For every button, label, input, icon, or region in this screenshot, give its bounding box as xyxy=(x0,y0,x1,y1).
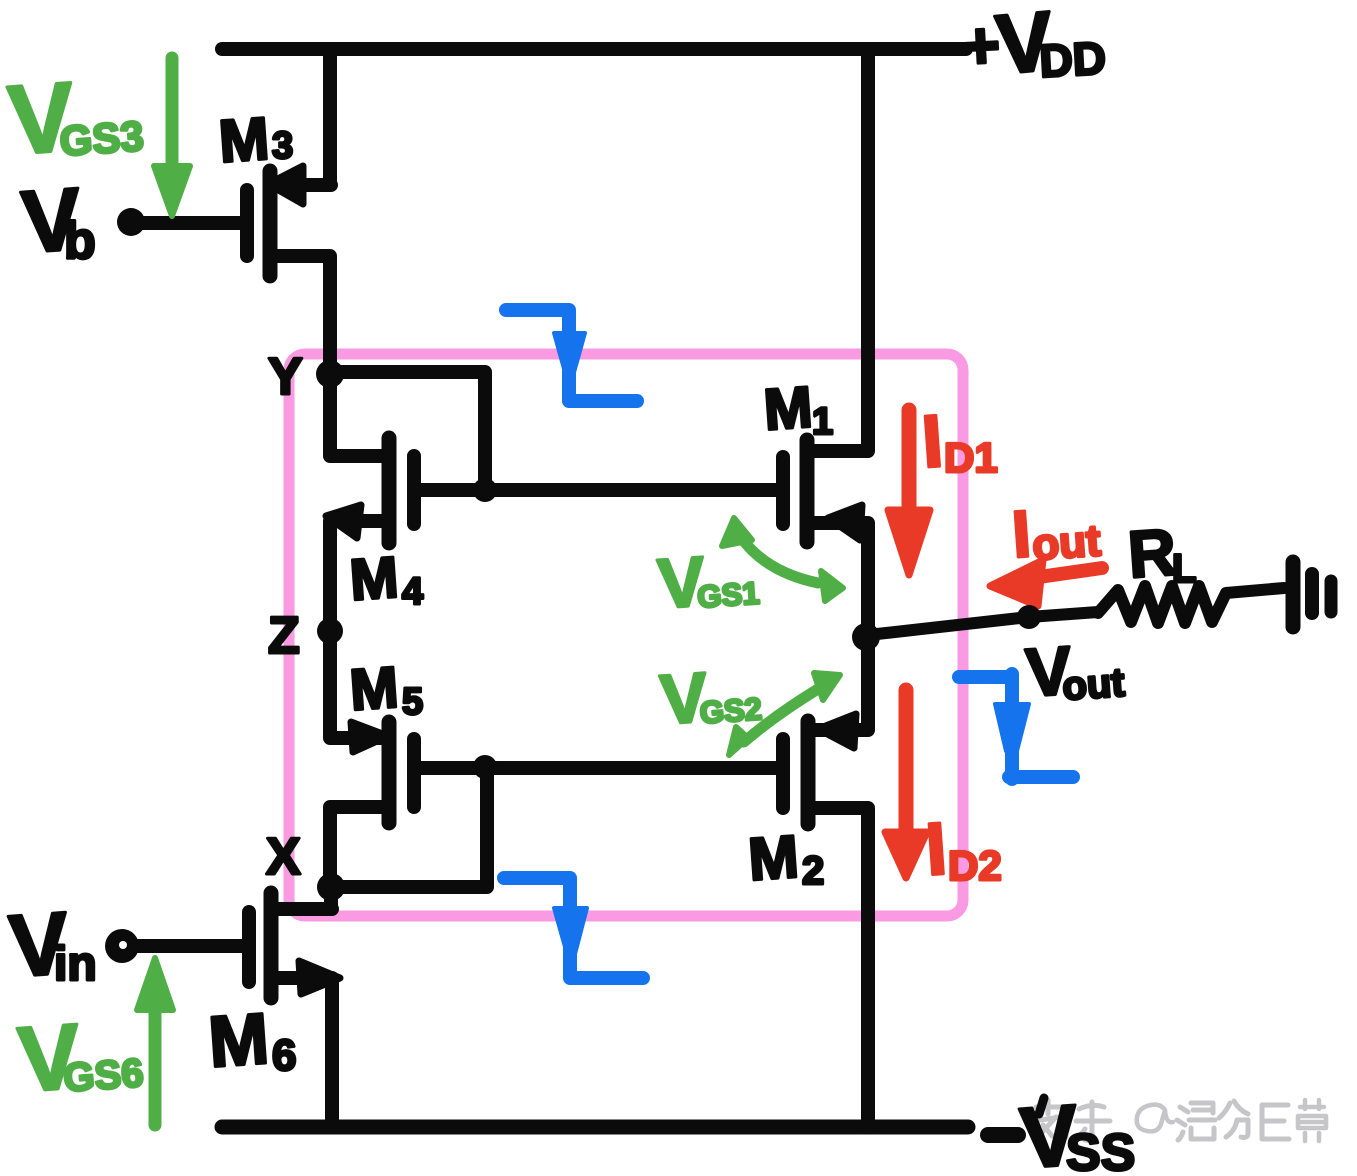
svg-text:in: in xyxy=(54,938,97,991)
resistor RL xyxy=(1098,586,1284,623)
label Vout xyxy=(1024,632,1126,711)
node Y xyxy=(316,360,344,388)
label +VDD xyxy=(960,0,1108,92)
feedback box (pink rectangle) xyxy=(289,354,963,916)
svg-text:GS6: GS6 xyxy=(62,1051,145,1100)
svg-text:M: M xyxy=(348,655,401,723)
wire Z to M5 source xyxy=(330,631,384,738)
node output xyxy=(852,623,880,651)
svg-text:b: b xyxy=(64,212,96,270)
svg-text:I: I xyxy=(919,399,945,483)
label M5 xyxy=(348,655,423,723)
svg-text:GS3: GS3 xyxy=(58,112,145,165)
label X xyxy=(266,828,301,886)
svg-text:GS2: GS2 xyxy=(699,691,763,730)
label VGS3 xyxy=(5,61,145,175)
label Y xyxy=(268,348,303,406)
wire Vb to M3 gate xyxy=(134,216,247,230)
label M4 xyxy=(348,545,423,613)
wire Y to M4 drain xyxy=(330,374,389,456)
label -VSS xyxy=(988,1127,1018,1143)
step symbol near X (blue) xyxy=(504,878,643,978)
transistor M6 xyxy=(249,893,340,998)
svg-text:R: R xyxy=(1126,514,1179,591)
label M1 xyxy=(762,375,833,443)
node gate junction M4 xyxy=(473,478,497,502)
transistor M3 xyxy=(247,166,303,276)
label RL xyxy=(1126,514,1197,591)
label Z xyxy=(268,607,300,665)
arrow VGS2 (green double) xyxy=(729,673,840,755)
node Vb terminal xyxy=(117,208,145,236)
svg-text:out: out xyxy=(1061,661,1126,709)
terminal bars (load return) xyxy=(1293,562,1331,627)
wire gate bus M5-M2 xyxy=(414,761,781,775)
label VGS2 xyxy=(658,658,763,739)
wire M2 source to VSS xyxy=(812,808,868,1127)
wire gate bus M4-M1 xyxy=(414,483,781,497)
svg-text:DD: DD xyxy=(1038,32,1107,87)
wire M2 drain to output node xyxy=(812,637,868,730)
wire M1 source to output node xyxy=(810,523,868,637)
wire M5 drain to node X xyxy=(330,807,389,887)
label Vin xyxy=(6,893,96,996)
svg-text:D2: D2 xyxy=(948,842,1002,889)
wire M4 source to node Z xyxy=(330,521,386,631)
label M6 xyxy=(206,999,296,1083)
node Vout tap xyxy=(1017,605,1041,629)
wire output to RL xyxy=(868,612,1098,635)
arrow VGS3 (green down) xyxy=(154,58,190,216)
wire Vin to M6 gate xyxy=(137,939,249,953)
svg-text:M: M xyxy=(762,375,815,443)
label Iout xyxy=(1010,496,1103,571)
node Z xyxy=(317,618,343,644)
svg-text:1: 1 xyxy=(812,401,833,443)
label VGS6 xyxy=(15,1005,145,1111)
svg-text:D1: D1 xyxy=(944,434,998,481)
label ID1 xyxy=(919,399,998,483)
svg-text:2: 2 xyxy=(802,849,824,893)
transistor M4 xyxy=(326,438,414,543)
arrow ID2 (red down) xyxy=(885,690,927,878)
label M2 xyxy=(746,823,824,893)
svg-text:SS: SS xyxy=(1066,1124,1135,1176)
label M3 xyxy=(217,105,293,175)
step symbol near Vout (blue) xyxy=(959,674,1073,779)
svg-text:M: M xyxy=(206,999,271,1083)
svg-text:M: M xyxy=(217,105,272,175)
step symbol near Y (blue) xyxy=(506,310,637,401)
svg-text:Y: Y xyxy=(268,348,303,406)
wire VDD to M1 drain xyxy=(809,49,868,451)
svg-text:5: 5 xyxy=(402,681,423,723)
svg-text:6: 6 xyxy=(272,1031,296,1080)
wire Y to M4 gate loop xyxy=(330,372,485,490)
label Vb xyxy=(19,169,96,272)
arrow ID1 (red down) xyxy=(888,410,930,575)
arrow VGS6 (green up) xyxy=(137,958,173,1125)
svg-text:3: 3 xyxy=(272,125,293,167)
node gate junction M5 xyxy=(473,755,497,779)
svg-text:Z: Z xyxy=(268,607,300,665)
wire VSS rail xyxy=(222,1120,968,1135)
wire M3 source to node Y xyxy=(272,256,330,374)
node X xyxy=(317,873,345,901)
transistor M5 xyxy=(351,722,414,823)
arrow Iout (red left) xyxy=(990,560,1102,606)
svg-text:X: X xyxy=(266,828,301,886)
svg-text:4: 4 xyxy=(402,571,423,613)
svg-text:I: I xyxy=(923,807,949,891)
transistor M1 xyxy=(783,440,862,542)
wire X to M6 drain xyxy=(272,887,332,909)
label ID2 xyxy=(923,807,1002,891)
svg-text:I: I xyxy=(1010,496,1033,571)
node Vin terminal xyxy=(105,929,139,963)
wire VDD to M3 drain xyxy=(272,49,331,185)
watermark 知乎 @混分巨兽 xyxy=(1033,1100,1326,1141)
wire M6 source to VSS rail xyxy=(272,978,332,1127)
arrow VGS1 (green double) xyxy=(722,518,843,601)
label VGS1 xyxy=(655,542,760,623)
wire +VDD rail xyxy=(222,42,966,56)
svg-text:M: M xyxy=(746,823,801,893)
svg-text:GS1: GS1 xyxy=(696,575,760,614)
svg-text:M: M xyxy=(348,545,401,613)
wire M5 gate loop to X xyxy=(331,767,487,887)
transistor M2 xyxy=(783,714,856,824)
svg-text:L: L xyxy=(1172,547,1196,591)
